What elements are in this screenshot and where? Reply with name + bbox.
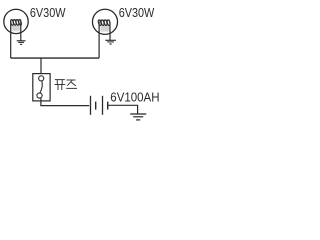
svg-text:6V30W: 6V30W bbox=[30, 5, 66, 20]
svg-text:6V100AH: 6V100AH bbox=[110, 90, 159, 105]
svg-text:6V30W: 6V30W bbox=[119, 5, 155, 20]
